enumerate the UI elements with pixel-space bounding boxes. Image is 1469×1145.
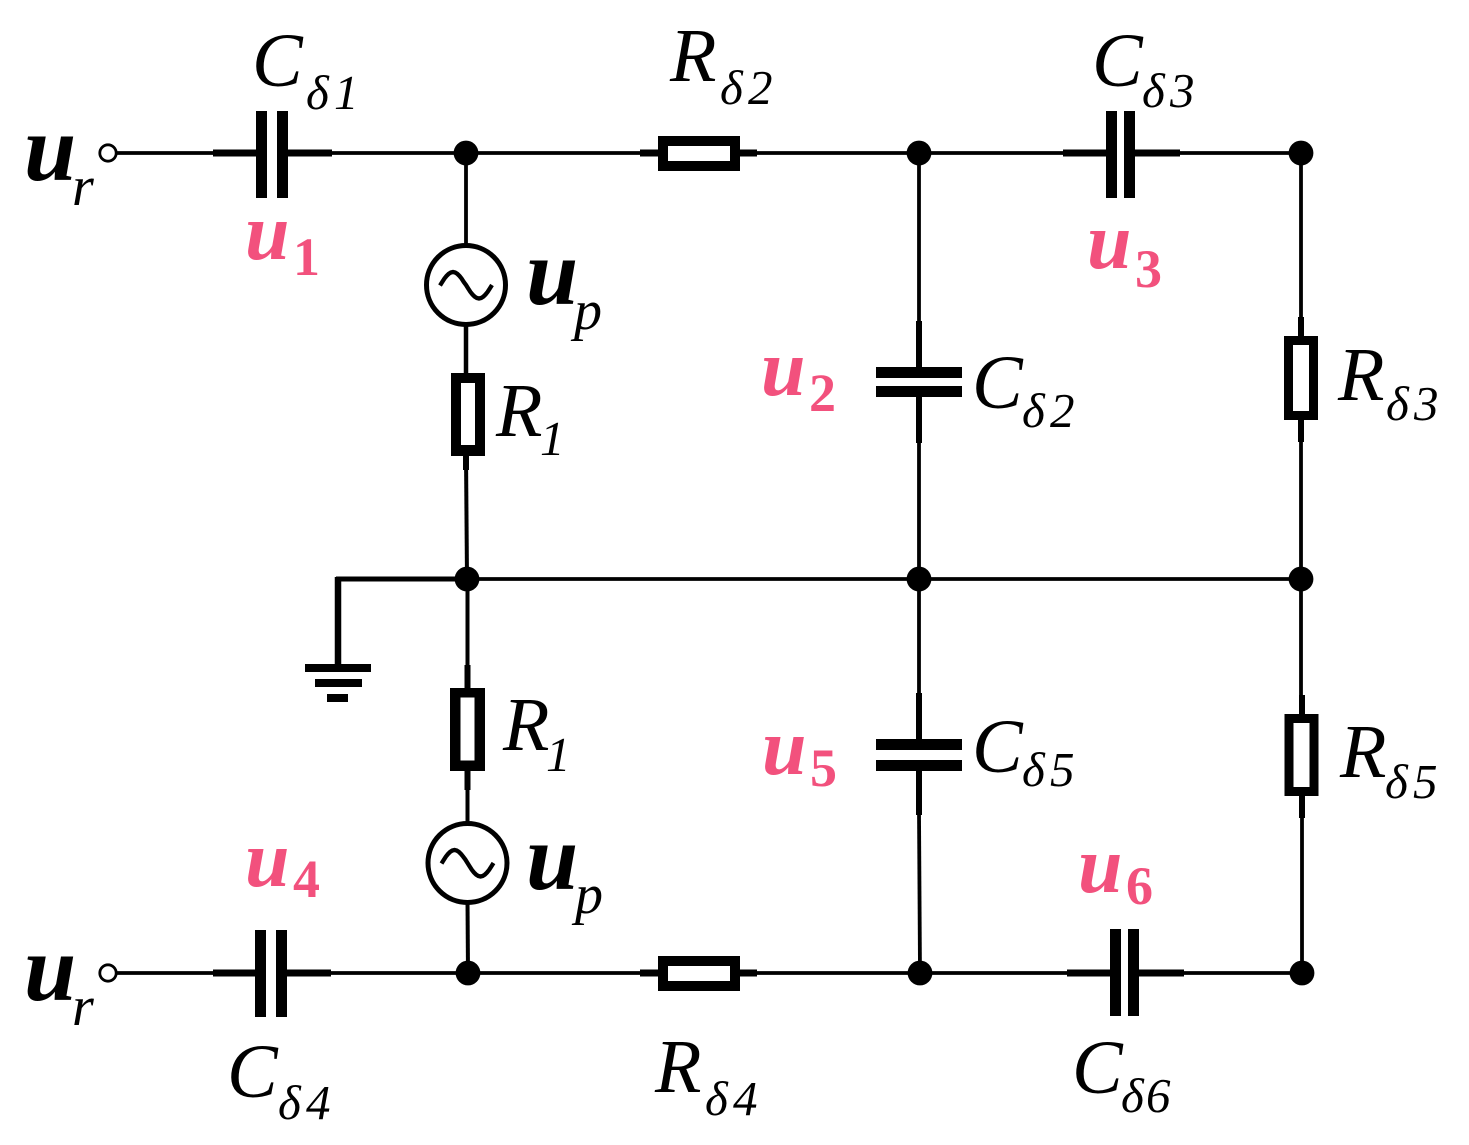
svg-text:u: u [245, 189, 290, 277]
svg-text:C: C [227, 1030, 279, 1114]
wire column1 to lower source [466, 788, 470, 826]
svg-text:4: 4 [293, 849, 320, 909]
wire column1 circle to R1 [464, 322, 469, 375]
svg-text:δ: δ [720, 60, 744, 115]
lead right of Cd6 [1139, 970, 1184, 977]
svg-text:R: R [669, 14, 716, 98]
wire top rail mid [288, 151, 658, 155]
svg-text:u: u [1078, 822, 1123, 910]
lead column1 below lower R1 [465, 770, 471, 790]
wire column2 Cd2 to mid [917, 440, 921, 579]
lead column1 below R1 [463, 455, 469, 470]
svg-text:R: R [1339, 710, 1386, 794]
svg-text:p: p [570, 280, 602, 342]
svg-text:5: 5 [1413, 754, 1438, 809]
lead column3 below Rd3 [1298, 420, 1304, 442]
node mid-3 [1289, 567, 1314, 592]
node bottom-1 [456, 961, 481, 986]
wire middle rail [336, 577, 467, 582]
svg-text:δ: δ [278, 1075, 302, 1130]
wire column3 top [1299, 153, 1303, 322]
lead left of Rd2 [640, 150, 660, 157]
svg-text:4: 4 [733, 1071, 758, 1126]
svg-text:u: u [1087, 198, 1132, 286]
svg-text:C: C [1092, 19, 1144, 103]
svg-text:u: u [245, 816, 290, 904]
svg-text:R: R [495, 369, 542, 453]
node top-1 [454, 141, 479, 166]
wire column1 lower source to bottom [466, 900, 471, 973]
svg-text:2: 2 [1050, 383, 1075, 438]
node bottom-3 [1290, 961, 1315, 986]
wire top rail right [740, 151, 1106, 155]
svg-text:p: p [571, 864, 603, 926]
wire bottom rail [116, 971, 255, 975]
svg-text:δ: δ [1022, 383, 1046, 438]
wire bottom rail mid [287, 971, 658, 975]
terminal ur bottom [100, 965, 116, 981]
svg-text:6: 6 [1146, 1068, 1171, 1123]
svg-text:R: R [502, 683, 549, 767]
lead right of Rd2 [738, 150, 757, 157]
svg-text:1: 1 [334, 65, 359, 120]
svg-text:4: 4 [306, 1075, 331, 1130]
lead column2 below Cd5 [916, 771, 922, 815]
node top-2 [907, 141, 932, 166]
svg-text:δ: δ [306, 65, 330, 120]
lead left of Cd6 [1067, 970, 1110, 977]
lead left of Cd3 [1063, 150, 1106, 157]
wire column1 top [464, 153, 468, 248]
source up top [427, 246, 506, 325]
wire column3 mid down [1299, 579, 1303, 700]
node bottom-2 [908, 961, 933, 986]
lead right of Cd4 [287, 970, 331, 977]
svg-text:5: 5 [1050, 742, 1075, 797]
resistor Rd2 [658, 136, 740, 171]
lead column3 below Rd5 [1299, 796, 1305, 818]
node mid-1 [455, 567, 480, 592]
lead right of Cd1 [288, 150, 332, 157]
lead column2 below Cd2 [916, 397, 922, 443]
svg-text:u: u [24, 917, 76, 1021]
wire column1 R1 to mid node [466, 455, 467, 579]
svg-text:C: C [1072, 1026, 1124, 1110]
svg-text:u: u [762, 704, 807, 792]
terminal ur top [100, 145, 116, 161]
svg-text:C: C [252, 19, 304, 103]
wire column2 top [917, 153, 921, 330]
svg-text:1: 1 [546, 727, 571, 782]
svg-text:r: r [72, 976, 94, 1038]
svg-text:δ: δ [1385, 754, 1409, 809]
lead left of Rd4 [640, 970, 660, 977]
svg-text:3: 3 [1413, 376, 1439, 431]
svg-text:6: 6 [1126, 856, 1153, 916]
capacitor Cd3 [1106, 111, 1135, 198]
svg-text:δ: δ [1142, 63, 1166, 118]
svg-text:δ: δ [1022, 742, 1046, 797]
svg-text:u: u [761, 325, 806, 413]
wire column3 Rd5 to bottom [1300, 815, 1304, 973]
svg-text:u: u [526, 806, 578, 910]
svg-text:3: 3 [1169, 63, 1195, 118]
wire bottom rail right [740, 971, 1110, 975]
capacitor Cd5 [876, 739, 962, 771]
node mid-2 [907, 567, 932, 592]
resistor Rd4 [658, 956, 740, 991]
wire top rail far right [1135, 151, 1301, 155]
svg-text:δ: δ [1121, 1068, 1145, 1123]
wire top rail [116, 151, 256, 155]
lead left of Cd4 [213, 970, 255, 977]
lead column2 above Cd5 [916, 693, 922, 739]
svg-text:5: 5 [810, 738, 837, 798]
svg-text:C: C [972, 341, 1024, 425]
ground [305, 577, 371, 702]
svg-text:R: R [1337, 333, 1384, 417]
lead column2 above Cd2 [916, 321, 922, 367]
wire column3 Rd3 to mid [1299, 439, 1303, 579]
capacitor Cd4 [255, 930, 287, 1017]
svg-text:C: C [972, 705, 1024, 789]
capacitor Cd2 [876, 367, 962, 397]
svg-text:3: 3 [1135, 239, 1162, 299]
capacitor Cd1 [256, 111, 288, 198]
node top-3 [1289, 141, 1314, 166]
svg-text:u: u [24, 97, 76, 201]
resistor R1 bottom [450, 688, 485, 771]
source up bottom [428, 824, 507, 903]
wire column2 mid down [917, 579, 921, 700]
resistor Rd3 [1284, 336, 1318, 420]
svg-text:2: 2 [748, 60, 773, 115]
capacitor Cd6 [1110, 929, 1139, 1016]
wire bottom rail far right [1139, 971, 1302, 975]
lead left of Cd1 [213, 150, 256, 157]
wire column1 mid node down [466, 579, 470, 670]
svg-text:1: 1 [540, 411, 565, 466]
svg-text:2: 2 [809, 363, 836, 423]
resistor R1 top [451, 373, 485, 456]
lead right of Cd3 [1135, 150, 1180, 157]
svg-text:1: 1 [293, 227, 320, 287]
lead column3 above Rd3 [1298, 317, 1304, 340]
svg-text:δ: δ [1386, 376, 1410, 431]
svg-text:u: u [526, 221, 578, 325]
svg-text:r: r [72, 156, 94, 218]
svg-text:δ: δ [705, 1071, 729, 1126]
wire column2 Cd5 to bottom [919, 812, 920, 973]
lead column1 above lower R1 [465, 665, 471, 690]
lead column3 above Rd5 [1299, 695, 1305, 718]
svg-text:R: R [654, 1025, 701, 1109]
resistor Rd5 [1285, 714, 1319, 796]
lead right of Rd4 [738, 970, 757, 977]
